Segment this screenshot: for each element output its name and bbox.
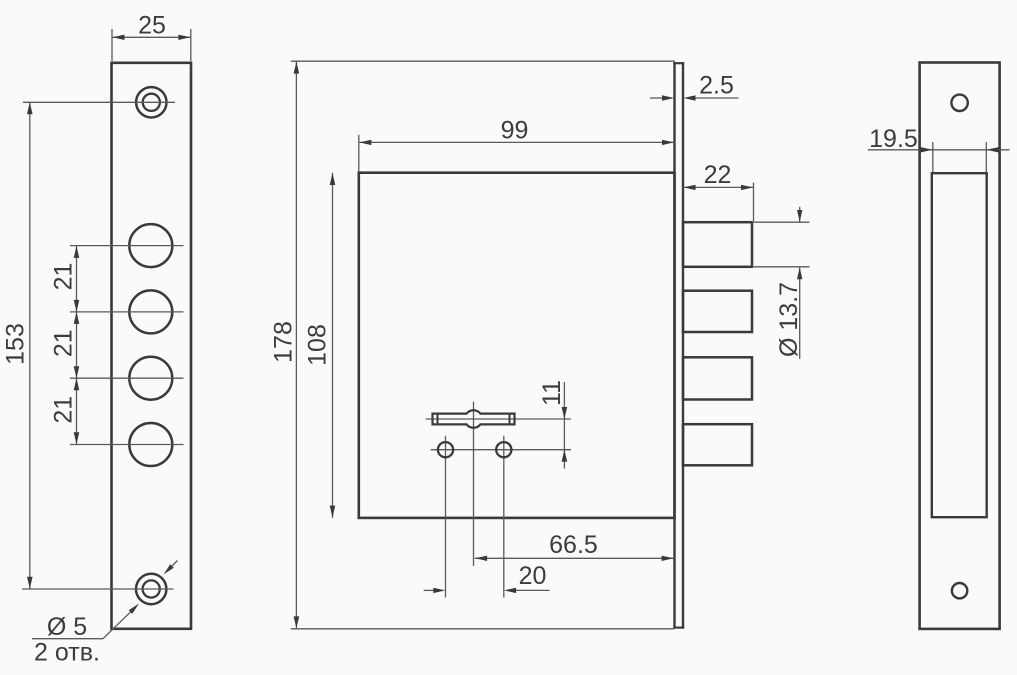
svg-text:Ø 13.7: Ø 13.7 [775,282,803,357]
dimension 22 extension line [753,183,755,221]
leader arrow from upper right [172,561,178,567]
fixing hole right [496,442,511,457]
svg-text:22: 22 [704,161,732,189]
keyway left end cap [437,414,439,425]
strike bottom screw hole [952,583,967,598]
svg-text:2 отв.: 2 отв. [34,639,100,667]
dimension 66.5 line [475,557,674,559]
keyway profile [433,410,515,427]
top screw hole centerline [23,101,175,103]
deadbolt 4 [683,424,752,465]
bottom screw hole inner [143,580,160,597]
strike plate outline [920,63,1000,629]
top extension line (178) [291,60,675,62]
svg-text:21: 21 [49,396,77,424]
faceplate outline [112,63,192,629]
bottom extension line (178) [291,628,675,630]
svg-text:25: 25 [138,12,166,40]
bolt hole 1 centerline [70,245,184,247]
svg-text:Ø 5: Ø 5 [47,613,87,641]
bolt hole 3 centerline [70,377,184,379]
deadbolt 3 [683,357,752,399]
bolt hole 4 centerline [70,444,184,446]
bolt hole 2 centerline [70,311,184,313]
svg-text:19.5: 19.5 [869,125,918,153]
dimension 13.7 bottom extension line [752,266,810,268]
forend plate left line [673,62,675,628]
dimension 2.5 left tail [650,97,663,99]
forend plate bottom cap [673,626,684,628]
bottom screw hole outer [136,574,166,604]
fixing hole right centerline vertical [503,436,505,598]
lock body outline [359,173,675,518]
dimension 13.7 line upper [799,207,801,222]
dimension 99 extension line [358,135,360,172]
top screw hole outer [136,87,166,117]
fixing hole left centerline vertical [445,436,447,598]
bolt hole 4 [129,423,172,466]
dimension 20 left tail [424,589,434,591]
fixing holes centerline horizontal [431,449,571,451]
deadbolt 1 [683,222,752,267]
fixing hole left [438,442,453,457]
svg-text:21: 21 [49,329,77,357]
top screw hole inner [143,94,160,111]
svg-text:66.5: 66.5 [549,531,598,559]
svg-text:21: 21 [49,263,77,291]
keyway centerline horizontal [426,418,571,420]
dimension 20 right tail [516,589,550,591]
strike top screw hole [951,95,967,111]
dimension 22 line [683,186,754,188]
dimension 2.5 right tail [696,97,739,99]
svg-text:20: 20 [519,562,547,590]
strike slot [932,173,987,517]
dimension 153 line [29,102,31,589]
dimension 25 extension lines [111,29,113,61]
svg-text:178: 178 [270,321,298,363]
svg-text:2.5: 2.5 [699,72,734,100]
leader Ø5 underline [32,638,103,640]
dimension 178 line [295,61,297,629]
dimension 21 chain line [76,246,78,445]
keyway right end cap [509,414,511,425]
leader Ø5 diagonal [103,611,132,639]
dimension 11 line [563,382,565,469]
svg-text:108: 108 [304,324,332,366]
svg-text:153: 153 [2,323,30,365]
dimension 99 line [359,141,675,143]
dimension 13.7 top extension line [752,221,810,223]
keyway centerline vertical [473,402,475,566]
dimension 13.7 line lower [799,267,801,359]
svg-text:11: 11 [538,380,566,406]
forend plate top cap [673,62,684,64]
dimension 108 line [332,173,334,518]
dimension 19.5 extension lines [932,142,934,172]
dimension 25 line [112,36,191,38]
bolt hole 2 [129,290,172,333]
bottom screw hole centerline [22,588,174,590]
dimension 19.5 line [868,149,1010,151]
bolt hole 3 [129,357,172,400]
svg-text:99: 99 [501,117,529,145]
bolt hole 1 [129,224,172,267]
forend plate right line [682,62,684,628]
deadbolt 2 [683,291,752,332]
